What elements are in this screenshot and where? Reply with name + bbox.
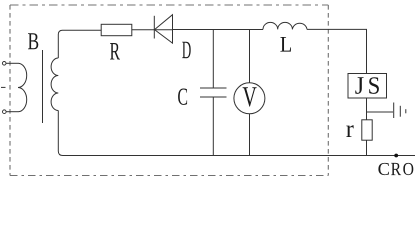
label r <box>346 125 353 137</box>
resistor R <box>101 24 132 35</box>
wire (resistor R to diode D) <box>132 29 173 31</box>
voltmeter V branch wire (top) <box>249 30 251 84</box>
transformer B secondary winding <box>51 58 58 111</box>
label B <box>28 33 38 49</box>
ground <box>394 103 406 119</box>
label L <box>280 37 291 52</box>
voltmeter V letter <box>243 87 257 106</box>
label CRO <box>378 163 413 175</box>
capacitor C plates <box>200 88 227 97</box>
label D <box>182 42 191 59</box>
wire (diode to top-right corner, through junctions) <box>173 29 264 31</box>
voltmeter V circle <box>234 83 265 114</box>
transformer B primary winding <box>18 63 27 111</box>
wire (resistor r to bottom bus) <box>366 140 368 155</box>
wire (secondary bottom to bottom bus, with corner) <box>58 111 415 156</box>
label C <box>178 89 187 105</box>
label R <box>110 43 120 60</box>
AC input dash mark <box>1 86 6 88</box>
inductor L <box>263 22 307 29</box>
resistor r <box>362 120 372 140</box>
wire (JS box down to resistor r) <box>366 98 368 120</box>
capacitor C branch wire (top) <box>212 30 214 89</box>
wire (ground branch) <box>367 111 394 113</box>
transformer B core <box>42 50 44 123</box>
dashed enclosure box <box>10 5 328 176</box>
transformer B primary terminal (bottom circle) <box>3 110 7 114</box>
voltmeter V branch wire (bottom) <box>249 114 251 156</box>
box JS <box>348 74 387 99</box>
wire (bottom terminal to primary coil) <box>6 111 18 113</box>
diode D triangle <box>155 15 173 43</box>
wire (inductor to top-right corner, down to JS box) <box>307 29 367 73</box>
diode D cathode bar <box>153 16 155 39</box>
label JS <box>355 77 379 94</box>
wire (top terminal to primary coil) <box>6 62 18 64</box>
junction dot (CRO tap) <box>394 154 398 158</box>
wire (secondary top to resistor R, with corner) <box>58 30 101 58</box>
capacitor C branch wire (bottom) <box>212 97 214 156</box>
transformer B primary terminal (top circle) <box>2 62 6 66</box>
